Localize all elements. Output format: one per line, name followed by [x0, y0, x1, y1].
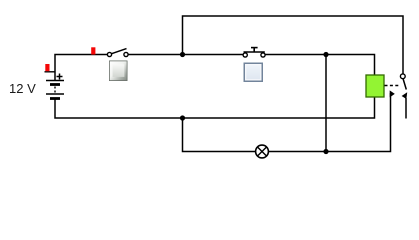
wire switch to pushbutton	[128, 54, 243, 56]
wire lamp branch right	[269, 93, 391, 152]
wire relay NC stub	[405, 98, 407, 119]
svg-text:12 V: 12 V	[9, 81, 36, 96]
switch S1 button	[109, 61, 128, 82]
battery B1	[46, 74, 64, 99]
wire lamp branch left	[183, 118, 256, 152]
wire pushbutton to relay coil top	[265, 55, 375, 76]
relay contact K1	[390, 74, 408, 99]
battery red marker	[45, 64, 56, 72]
node junction lamp wire	[323, 149, 328, 154]
push button S2 button	[244, 63, 264, 83]
wire top branch	[183, 16, 404, 74]
wire middle vertical x=326	[325, 55, 327, 152]
node junction top-right	[323, 52, 328, 57]
node junction top-left	[180, 52, 185, 57]
wire red marker	[91, 47, 95, 54]
switch S1	[107, 49, 128, 57]
wire main horizontal from battery to switch	[55, 55, 108, 81]
lamp L1	[256, 145, 269, 158]
relay coil K1	[366, 75, 384, 97]
relay link dashed	[385, 85, 401, 87]
wire bottom from battery to relay coil bottom	[55, 97, 375, 118]
node junction bottom-left	[180, 115, 185, 120]
push button S2	[243, 48, 265, 58]
